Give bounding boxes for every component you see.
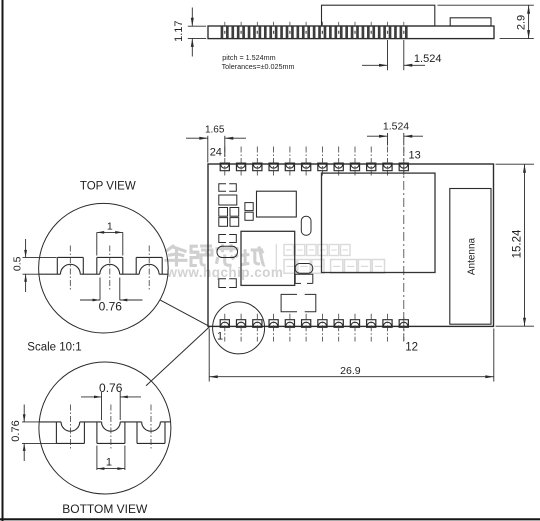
bottom edge castellated pads 1-12 xyxy=(220,314,408,342)
dim 26.9 board width xyxy=(209,329,494,382)
svg-text:0.76: 0.76 xyxy=(99,299,123,313)
pcb board outline xyxy=(208,164,494,326)
dim 0.76 pad depth xyxy=(10,405,57,462)
svg-text:12: 12 xyxy=(405,342,418,354)
component C5 (tantalum cap) xyxy=(217,246,238,257)
dim 1.17 strip thickness xyxy=(173,8,206,57)
watermark divider xyxy=(275,244,277,274)
side view shield body xyxy=(322,5,435,26)
dim 1 pad width (bottom view) xyxy=(97,446,125,471)
component C9 (LED) xyxy=(301,216,311,235)
dim 15.24 board height xyxy=(496,164,535,326)
svg-text:1: 1 xyxy=(107,221,113,233)
component C6 (chip cap) xyxy=(219,279,226,288)
svg-text:1.524: 1.524 xyxy=(383,120,409,132)
detail circle on board xyxy=(213,302,265,354)
svg-text:TOP VIEW: TOP VIEW xyxy=(80,180,136,192)
watermark brand glyphs xyxy=(165,244,265,266)
dim 1.65 first pad offset xyxy=(186,125,246,163)
side view castellation pads (hatch bars) xyxy=(221,27,408,39)
svg-text:Antenna: Antenna xyxy=(467,237,478,275)
svg-text:1.524: 1.524 xyxy=(414,53,442,65)
component U1 main BT chip xyxy=(322,173,436,272)
svg-text:0.76: 0.76 xyxy=(10,420,22,441)
watermark slogan line 2 xyxy=(284,260,385,274)
svg-text:26.9: 26.9 xyxy=(340,365,361,377)
svg-text:www.hqchip.com: www.hqchip.com xyxy=(166,265,284,280)
page frame bottom border xyxy=(0,518,540,520)
antenna area xyxy=(450,189,491,325)
component C11 (big cap) xyxy=(281,294,316,311)
page frame left border xyxy=(2,0,4,521)
component C1 (chip cap) xyxy=(219,184,226,192)
svg-text:24: 24 xyxy=(210,146,222,158)
svg-text:pitch = 1.524mm: pitch = 1.524mm xyxy=(222,53,275,62)
side view pin centerline ticks xyxy=(225,22,404,34)
side view connector block xyxy=(450,18,491,26)
leader line to top detail xyxy=(160,300,210,327)
svg-text:13: 13 xyxy=(409,150,421,162)
svg-text:1: 1 xyxy=(106,457,112,469)
svg-text:0.5: 0.5 xyxy=(11,256,23,271)
side view pcb strip xyxy=(208,26,494,39)
svg-text:BOTTOM VIEW: BOTTOM VIEW xyxy=(62,502,148,516)
svg-text:Scale 10:1: Scale 10:1 xyxy=(27,341,81,353)
dim 2.9 overall height xyxy=(438,5,534,38)
component C10 pair xyxy=(295,264,313,284)
svg-text:0.76: 0.76 xyxy=(99,381,123,395)
svg-text:2.9: 2.9 xyxy=(515,15,527,30)
dim 1.524 pad pitch xyxy=(367,120,423,145)
component C2 (chip res) xyxy=(219,195,237,205)
svg-text:1.17: 1.17 xyxy=(173,20,185,41)
svg-text:1.65: 1.65 xyxy=(205,125,225,136)
pin 13-12 long centerline xyxy=(403,147,405,341)
component X1 crystal xyxy=(257,191,297,217)
watermark slogan line 1 xyxy=(284,245,350,256)
top edge castellated pads 24-13 xyxy=(220,147,408,176)
bottom view pad profile xyxy=(39,405,170,450)
dim 0.76 hole dia (top view) xyxy=(80,278,143,314)
dim 1 pad width (top view) xyxy=(97,221,123,256)
svg-text:1: 1 xyxy=(217,331,223,343)
dim 0.5 pad height xyxy=(11,239,56,292)
component C4 (chip cap) xyxy=(219,235,226,243)
top view pad profile xyxy=(39,246,168,290)
top view detail circle xyxy=(39,203,169,333)
component U2 flash memory xyxy=(241,231,295,285)
component C3 (dual chip pair) xyxy=(219,208,239,227)
bottom view detail circle xyxy=(39,362,171,494)
svg-text:15.24: 15.24 xyxy=(511,229,523,258)
svg-text:Tolerances=±0.025mm: Tolerances=±0.025mm xyxy=(222,62,295,71)
leader line to bottom detail xyxy=(146,327,210,386)
dim 0.76 hole dia (bottom view) xyxy=(81,381,141,420)
dim 1.524 side view pitch xyxy=(362,40,441,70)
component C7 (vertical chip) xyxy=(245,203,253,221)
